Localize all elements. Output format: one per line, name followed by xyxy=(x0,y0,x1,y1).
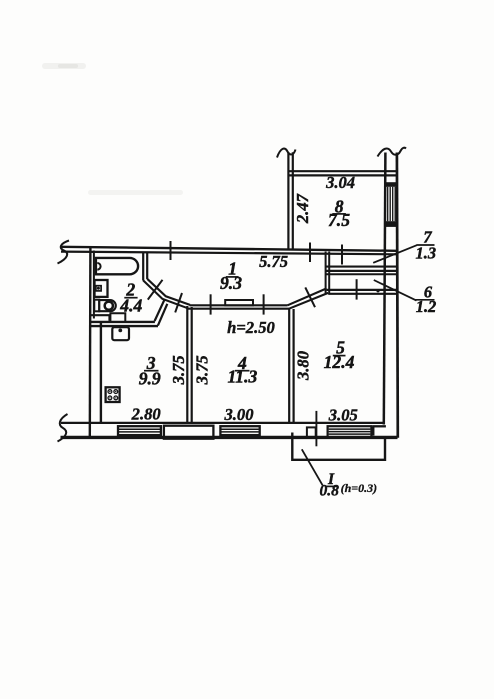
svg-text:3.04: 3.04 xyxy=(325,173,355,192)
bathroom chamfer wall xyxy=(147,279,190,305)
svg-text:0.8: 0.8 xyxy=(319,483,339,500)
toilet xyxy=(94,300,99,312)
kitchen sink xyxy=(112,327,129,340)
wire top exterior wall inner line xyxy=(61,252,397,255)
right wall hatch xyxy=(387,187,389,221)
svg-text:1.2: 1.2 xyxy=(416,297,437,316)
closets 6-7 left wall xyxy=(325,252,327,294)
loggia left wall xyxy=(287,152,289,250)
bathtub faucet notch xyxy=(97,263,100,270)
transom rect on room4 top wall xyxy=(225,300,253,305)
svg-text:9.3: 9.3 xyxy=(220,273,242,293)
svg-text:3.00: 3.00 xyxy=(223,405,253,424)
bathroom right wall xyxy=(142,253,144,281)
svg-text:2.80: 2.80 xyxy=(131,404,161,423)
svg-text:4.4: 4.4 xyxy=(119,295,142,315)
leader line balcony xyxy=(302,449,323,485)
room 5 top wall xyxy=(327,289,397,291)
sink bathroom xyxy=(95,280,108,297)
right exterior wall inner line xyxy=(384,153,386,425)
right wall crossbar upper xyxy=(384,182,397,187)
pier rect xyxy=(307,427,316,438)
wire break symbol top-left xyxy=(58,241,70,264)
svg-text:1.3: 1.3 xyxy=(416,244,437,263)
wire left wall inner line (kitchen) xyxy=(100,321,102,424)
right wall crossbar lower xyxy=(384,221,397,227)
room 4 top wall xyxy=(190,304,288,306)
svg-text:(h=0.3): (h=0.3) xyxy=(341,481,378,495)
bottom wall inner line xyxy=(61,422,385,424)
chamfer wall hall-room5 xyxy=(288,288,327,305)
balcony outline xyxy=(292,433,385,460)
stove xyxy=(106,387,120,402)
kitchen top wall xyxy=(90,321,155,323)
wire top exterior wall outer line xyxy=(61,247,396,251)
svg-text:3.80: 3.80 xyxy=(294,351,313,381)
door tick left xyxy=(210,294,212,314)
wire left exterior wall outer line xyxy=(89,246,92,439)
duct box xyxy=(110,313,125,321)
svg-text:11.3: 11.3 xyxy=(227,367,257,387)
window plain xyxy=(164,426,214,439)
node tick on top wall x342 xyxy=(341,245,343,265)
svg-text:12.4: 12.4 xyxy=(324,352,355,372)
svg-text:7.5: 7.5 xyxy=(328,210,350,230)
leader line room6 xyxy=(374,280,417,301)
kitchen door jamb xyxy=(155,300,165,321)
label underlines xyxy=(226,276,239,278)
tick balcony door xyxy=(315,411,317,446)
break symbol right wall top xyxy=(378,148,407,157)
tick on room5 top wall xyxy=(356,279,358,299)
break symbol bottom-left xyxy=(58,414,68,442)
closet divider lines xyxy=(326,266,397,268)
right exterior wall outer line xyxy=(396,153,400,438)
svg-text:3.75: 3.75 xyxy=(169,355,188,385)
bathroom bottom wall xyxy=(89,314,110,316)
svg-text:h=2.50: h=2.50 xyxy=(227,318,275,337)
svg-text:3.05: 3.05 xyxy=(328,405,358,424)
svg-text:2.47: 2.47 xyxy=(293,193,312,224)
node tick on top wall x170 xyxy=(170,241,172,260)
leader line room7 xyxy=(373,245,417,263)
window kitchen xyxy=(118,426,161,435)
window room5 xyxy=(328,426,372,437)
door stroke bathroom xyxy=(148,280,163,300)
svg-text:5.75: 5.75 xyxy=(259,252,288,271)
node junction dot room5 wall xyxy=(376,289,379,292)
loggia top wall xyxy=(289,170,397,172)
wire left wall inner line (bathroom) xyxy=(93,251,95,319)
door stroke kitchen xyxy=(175,293,182,312)
node tick on top wall x310 xyxy=(309,243,311,263)
faint scan smudge top-left xyxy=(42,63,86,69)
door tick right xyxy=(263,294,265,314)
window room4 xyxy=(220,426,259,435)
svg-text:9.9: 9.9 xyxy=(139,368,161,388)
right wall bottom window jog xyxy=(373,425,386,427)
bathtub xyxy=(96,258,138,274)
bottom wall outer line xyxy=(61,436,398,439)
faint scan smudge upper-middle xyxy=(88,190,183,195)
svg-text:3.75: 3.75 xyxy=(192,355,211,385)
door stroke room5 xyxy=(305,287,315,307)
break symbol loggia wall top xyxy=(277,149,296,158)
wall between rooms 4 and 5 xyxy=(288,308,290,423)
wall between rooms 3 and 4 xyxy=(186,306,188,423)
